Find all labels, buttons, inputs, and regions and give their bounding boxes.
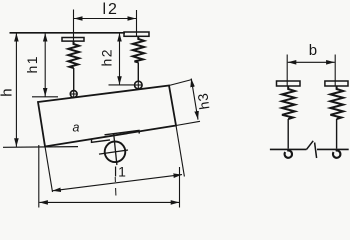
- svg-text:h: h: [0, 88, 16, 96]
- left vertical extension line: [38, 145, 40, 208]
- trough edge line (section) left part: [270, 148, 307, 150]
- anchor plate left: [62, 38, 84, 42]
- rod below left spring: [73, 68, 75, 91]
- spring right (main view): [133, 36, 144, 62]
- side anchor plate left: [277, 81, 301, 86]
- break symbol: [307, 141, 314, 150]
- trough box: [38, 86, 176, 147]
- bottom dimension line: [39, 201, 179, 203]
- exciter bracket upper bar: [105, 130, 140, 134]
- centerline dash-dot below motor: [114, 177, 116, 182]
- side rod right: [336, 119, 338, 149]
- h1 extension line: [32, 96, 58, 98]
- dimension l1 (inclined): [52, 175, 182, 191]
- svg-text:b: b: [309, 42, 317, 59]
- right edge extension (l1): [176, 126, 184, 177]
- dimension h1 line: [44, 33, 46, 97]
- hook right: [333, 150, 340, 157]
- horizontal reference line for angle a / h: [3, 146, 78, 149]
- svg-text:h1: h1: [24, 55, 40, 74]
- svg-text:l2: l2: [103, 1, 119, 18]
- svg-text:a: a: [73, 121, 80, 135]
- top edge extension (h3): [169, 80, 192, 86]
- hook left: [285, 150, 292, 157]
- l2 extension line right: [136, 10, 138, 36]
- pivot circle left: [70, 91, 77, 98]
- dimension b line: [288, 61, 335, 63]
- b extension left: [286, 55, 288, 87]
- b extension right: [334, 55, 336, 87]
- dimension l2 line: [74, 18, 136, 20]
- side rod left: [287, 119, 289, 149]
- right vertical extension line: [179, 167, 181, 208]
- h2 extension line: [109, 84, 135, 86]
- motor cross vertical: [114, 134, 117, 165]
- bottom edge extension (h3): [176, 121, 200, 125]
- trough edge line (section) right part: [317, 148, 349, 150]
- left edge extension (l1): [45, 147, 53, 193]
- ceiling reference line: [10, 32, 126, 34]
- dimension h3 line: [191, 79, 198, 120]
- pivot circle right: [135, 81, 143, 89]
- rod below right spring: [137, 62, 139, 81]
- dimension h2 line: [119, 33, 121, 85]
- side anchor plate right: [325, 81, 348, 86]
- svg-text:h3: h3: [194, 92, 212, 111]
- motor circle: [105, 142, 126, 163]
- dimension h line: [15, 33, 17, 147]
- anchor plate right: [124, 32, 149, 36]
- l2 extension line left: [73, 10, 75, 42]
- motor cross bar: [99, 150, 128, 154]
- side spring right: [330, 86, 343, 119]
- exciter bracket lower bar: [92, 139, 111, 142]
- side spring left: [282, 86, 295, 119]
- svg-text:h2: h2: [98, 48, 114, 67]
- spring left (main view): [68, 41, 79, 68]
- svg-text:l1: l1: [114, 164, 127, 180]
